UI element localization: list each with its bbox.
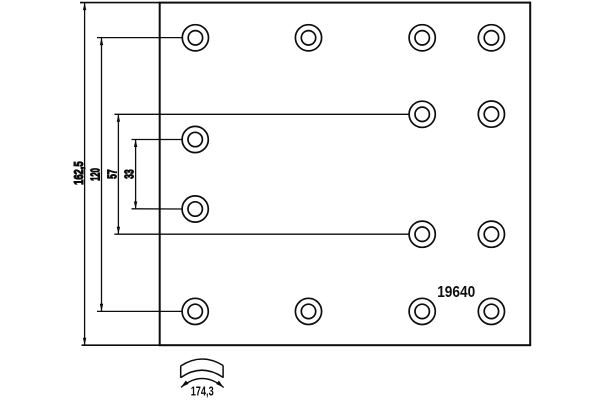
hole A2 (295, 25, 321, 51)
hole A3 (409, 25, 435, 51)
dimension arc 174,3 (181, 378, 224, 387)
hole E3 (409, 221, 435, 247)
hole C1 (182, 126, 208, 152)
leader row C (132, 139, 183, 141)
dimension line 57 (117, 114, 119, 234)
leader row B (114, 113, 409, 115)
svg-text:33: 33 (122, 169, 136, 179)
arrow 33 bottom (134, 202, 137, 210)
svg-text:120: 120 (88, 168, 102, 181)
svg-text:174,3: 174,3 (191, 384, 214, 398)
leader row A (97, 37, 183, 39)
hole F1 (182, 298, 208, 324)
svg-text:19640: 19640 (437, 284, 475, 301)
hole F3 (409, 298, 435, 324)
bottom extension line (82, 344, 160, 346)
arrow 162,5 bottom (83, 338, 86, 346)
dimension line 162,5 (84, 3, 86, 346)
arrow 162,5 top (83, 3, 86, 11)
lining section right end (222, 366, 224, 378)
arrow 57 bottom (117, 227, 120, 235)
hole F4 (478, 298, 504, 324)
hole A4 (478, 25, 504, 51)
hole E4 (478, 221, 504, 247)
arrow 57 top (117, 114, 120, 122)
dimension line 33 (135, 140, 137, 210)
svg-text:162,5: 162,5 (72, 161, 86, 185)
hole A1 (182, 25, 208, 51)
leader row F (97, 310, 182, 312)
arrow 120 top (100, 38, 103, 46)
lining section left end (180, 366, 182, 378)
lining section outer arc (181, 359, 224, 366)
hole B3 (409, 101, 435, 127)
leader row D (132, 208, 183, 210)
hole F2 (295, 298, 321, 324)
leader row E (114, 233, 409, 235)
lining section inner arc (181, 370, 223, 377)
plate outline (160, 3, 531, 346)
arc arrow left (181, 381, 189, 388)
hole D1 (182, 196, 208, 222)
svg-text:57: 57 (106, 169, 120, 179)
top extension line (80, 2, 160, 4)
hole B4 (478, 101, 504, 127)
arrow 120 bottom (100, 304, 103, 312)
arc arrow right (216, 381, 224, 388)
dimension line 120 (101, 38, 103, 312)
arrow 33 top (134, 140, 137, 148)
